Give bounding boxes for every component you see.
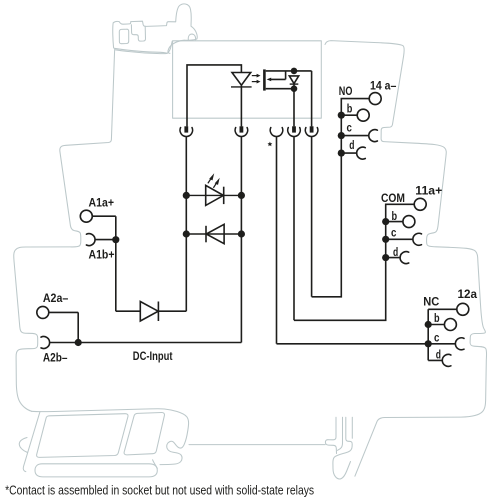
svg-text:12a: 12a	[458, 287, 478, 301]
svg-text:b: b	[434, 311, 440, 325]
svg-text:*Contact is assembled in socke: *Contact is assembled in socket but not …	[5, 483, 314, 498]
svg-text:11a+: 11a+	[415, 184, 442, 198]
svg-text:c: c	[391, 226, 397, 240]
svg-text:COM: COM	[381, 191, 405, 205]
svg-text:A1b+: A1b+	[89, 248, 115, 262]
svg-text:NO: NO	[339, 84, 353, 98]
svg-text:A2a–: A2a–	[43, 291, 69, 305]
svg-text:A1a+: A1a+	[89, 196, 115, 210]
svg-text:c: c	[347, 121, 353, 135]
svg-text:DC-Input: DC-Input	[133, 349, 173, 363]
svg-text:d: d	[393, 245, 398, 259]
svg-text:NC: NC	[423, 295, 439, 309]
svg-text:c: c	[434, 331, 440, 345]
svg-text:14 a–: 14 a–	[370, 78, 397, 92]
svg-text:A2b–: A2b–	[43, 351, 68, 365]
svg-text:d: d	[349, 138, 354, 152]
svg-text:b: b	[347, 102, 353, 116]
svg-text:b: b	[392, 209, 398, 223]
svg-text:d: d	[436, 348, 441, 362]
